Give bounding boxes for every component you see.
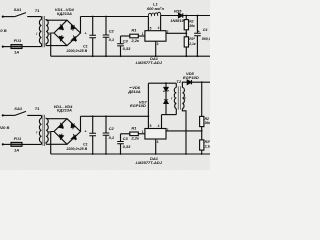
bridge rectifier VD1-VD4 diamond bbox=[54, 20, 81, 45]
svg-text:FU1: FU1 bbox=[14, 136, 22, 141]
T1 core bbox=[43, 16, 45, 47]
svg-text:+: + bbox=[84, 32, 86, 36]
wire bridge minus to ground rail bbox=[51, 132, 54, 155]
svg-text:36к: 36к bbox=[189, 24, 195, 28]
svg-text:~220 В: ~220 В bbox=[0, 125, 10, 130]
svg-text:T1: T1 bbox=[35, 106, 40, 111]
svg-text:I: I bbox=[171, 97, 172, 101]
svg-text:500,0: 500,0 bbox=[202, 37, 210, 41]
capacitor C2 bbox=[105, 116, 107, 133]
svg-text:2,2к: 2,2к bbox=[130, 38, 140, 43]
svg-text:FU1: FU1 bbox=[14, 38, 22, 43]
diode VD3 (bottom-left arm) bbox=[59, 134, 63, 140]
svg-text:T2: T2 bbox=[176, 79, 181, 84]
wire bbox=[3, 46, 11, 48]
diode VD1 (top-left arm) bbox=[58, 123, 63, 129]
wire bridge plus riser bbox=[80, 17, 82, 34]
wire secondary top bbox=[182, 82, 187, 87]
inductor L1 legs bbox=[148, 16, 160, 31]
svg-text:3: 3 bbox=[157, 42, 159, 46]
wire pin2 feedback bbox=[166, 130, 202, 132]
svg-text:LM2577T-ADJ: LM2577T-ADJ bbox=[136, 160, 163, 165]
svg-text:1A: 1A bbox=[14, 50, 19, 55]
node: mains input terminal top bbox=[2, 16, 4, 18]
svg-text:0,1: 0,1 bbox=[109, 37, 115, 42]
diode VD7 bbox=[164, 99, 168, 101]
resistor R3* bbox=[200, 140, 204, 150]
svg-text:R1: R1 bbox=[131, 28, 137, 33]
switch SA1 bbox=[15, 13, 42, 17]
T1 secondary winding II bbox=[46, 118, 48, 144]
svg-text:I: I bbox=[36, 32, 37, 36]
resistor R2 bbox=[201, 81, 203, 83]
capacitor C4 bbox=[197, 15, 199, 17]
wire pin5 riser to clamp rail bbox=[147, 83, 149, 128]
wire pin2 feedback bbox=[166, 32, 186, 34]
svg-text:1N5819: 1N5819 bbox=[170, 19, 183, 23]
svg-text:EGP10D: EGP10D bbox=[183, 75, 199, 80]
svg-text:2,1к: 2,1к bbox=[204, 144, 210, 148]
svg-text:SA1: SA1 bbox=[14, 7, 23, 12]
T2 secondary winding II bbox=[182, 88, 184, 109]
zener VD6 bbox=[164, 87, 168, 91]
resistor R3* bbox=[184, 37, 188, 47]
svg-text:II: II bbox=[184, 97, 186, 101]
svg-text:EGP10D: EGP10D bbox=[130, 103, 146, 108]
svg-text:600 мкГн: 600 мкГн bbox=[147, 7, 165, 11]
capacitor C2 bbox=[105, 17, 107, 36]
wire bbox=[3, 16, 15, 18]
T1 primary winding I bbox=[41, 115, 43, 118]
capacitor C3 bbox=[120, 36, 122, 44]
wire secondary bottom to ground bbox=[182, 109, 186, 154]
op IC DA1 LM2577 box bbox=[145, 129, 166, 140]
wire bbox=[22, 143, 42, 145]
label VD6 leader dash bbox=[130, 87, 132, 89]
T1 core bbox=[43, 115, 45, 146]
wire bbox=[3, 143, 11, 145]
wire clamp bottom to pin4 and primary bbox=[162, 114, 177, 116]
wire secondary bottom to bridge bbox=[46, 45, 67, 47]
svg-text:~220 В: ~220 В bbox=[0, 28, 7, 33]
top rail bbox=[81, 16, 149, 18]
capacitor C3 bbox=[120, 134, 122, 142]
wire secondary bottom to bridge bbox=[46, 143, 67, 145]
diode VD1 (top-left arm) bbox=[58, 24, 63, 30]
ground rail bbox=[51, 153, 210, 155]
wire secondary top to bridge bbox=[46, 118, 67, 120]
svg-text:5: 5 bbox=[150, 124, 152, 128]
svg-text:C2: C2 bbox=[109, 126, 115, 131]
resistor R1 bbox=[121, 133, 130, 135]
svg-text:+: + bbox=[84, 130, 86, 134]
diode VD3 (bottom-left arm) bbox=[59, 35, 63, 41]
resistor R1 bbox=[121, 35, 130, 37]
wire bbox=[165, 103, 167, 114]
svg-text:4: 4 bbox=[158, 26, 160, 30]
wire pin3 to ground bbox=[155, 41, 157, 56]
svg-text:II: II bbox=[48, 130, 50, 134]
svg-text:Д814А: Д814А bbox=[127, 89, 141, 94]
svg-text:0,33: 0,33 bbox=[123, 144, 132, 149]
svg-text:I: I bbox=[36, 130, 37, 134]
wire bridge plus riser bbox=[80, 116, 82, 131]
top rail bbox=[81, 115, 149, 117]
svg-text:C3: C3 bbox=[123, 38, 129, 43]
svg-text:SA1: SA1 bbox=[14, 106, 23, 111]
svg-text:2,2к: 2,2к bbox=[130, 136, 140, 141]
wire secondary top to bridge bbox=[46, 19, 67, 21]
svg-text:36к: 36к bbox=[205, 121, 210, 125]
svg-text:КД213А: КД213А bbox=[57, 11, 72, 16]
node: mains input terminal top bbox=[2, 114, 4, 116]
wire bbox=[165, 91, 167, 100]
svg-text:0,1: 0,1 bbox=[109, 135, 115, 140]
svg-text:5: 5 bbox=[150, 26, 152, 30]
resistor R2 bbox=[185, 15, 187, 17]
diode VD5 bbox=[179, 13, 183, 17]
diode VD2 (top-right arm) bbox=[71, 123, 76, 129]
op IC DA1 LM2577 box bbox=[145, 31, 166, 42]
capacitor C1 bbox=[92, 17, 94, 36]
svg-text:VD5: VD5 bbox=[174, 8, 183, 13]
diode VD2 (top-right arm) bbox=[71, 25, 76, 31]
ground rail bbox=[51, 55, 210, 57]
fuse FU1 bbox=[11, 142, 22, 146]
svg-text:1: 1 bbox=[142, 32, 144, 36]
fuse FU1 bbox=[11, 45, 22, 49]
svg-text:+: + bbox=[198, 29, 200, 33]
svg-text:T1: T1 bbox=[35, 8, 40, 13]
svg-text:2,1к: 2,1к bbox=[188, 42, 196, 46]
wire bbox=[3, 114, 15, 116]
T1 primary winding I bbox=[41, 17, 43, 20]
diode VD5 bbox=[187, 80, 191, 84]
T2 primary winding I bbox=[175, 83, 177, 87]
svg-text:4: 4 bbox=[158, 124, 160, 128]
wire rail after L1 bbox=[161, 15, 179, 17]
svg-text:C4: C4 bbox=[203, 28, 208, 32]
wire clamp chain bbox=[165, 83, 167, 87]
svg-text:КД213А: КД213А bbox=[57, 107, 72, 112]
svg-text:2200,0×25 В: 2200,0×25 В bbox=[66, 49, 88, 53]
svg-text:R1: R1 bbox=[131, 125, 137, 130]
bridge rectifier VD1-VD4 diamond bbox=[54, 119, 81, 145]
capacitor C1 bbox=[92, 116, 94, 133]
node: mains input terminal bottom bbox=[2, 143, 4, 145]
clamp rail bbox=[148, 82, 176, 84]
svg-text:R3*: R3* bbox=[189, 37, 195, 41]
wire pin4 riser bbox=[161, 115, 163, 129]
node bbox=[92, 16, 94, 18]
svg-text:LM2577T-ADJ: LM2577T-ADJ bbox=[136, 60, 163, 65]
svg-text:3: 3 bbox=[157, 140, 159, 144]
svg-text:C2: C2 bbox=[109, 28, 115, 33]
inductor L1 winding bbox=[148, 12, 160, 16]
wire bridge minus to ground rail bbox=[51, 33, 54, 56]
T2 core bbox=[178, 86, 180, 109]
diode VD4 (bottom-right arm) bbox=[71, 35, 76, 41]
svg-text:1: 1 bbox=[142, 130, 144, 134]
T1 secondary winding II bbox=[46, 20, 48, 46]
svg-text:C3: C3 bbox=[123, 136, 129, 141]
wire bbox=[22, 46, 42, 48]
svg-text:L1: L1 bbox=[153, 2, 158, 7]
diode VD4 (bottom-right arm) bbox=[71, 134, 76, 140]
svg-text:1A: 1A bbox=[14, 148, 19, 153]
svg-text:2200,0×25 В: 2200,0×25 В bbox=[66, 147, 88, 151]
node: mains input terminal bottom bbox=[2, 46, 4, 48]
svg-text:0,33: 0,33 bbox=[123, 46, 132, 51]
wire pin3 to ground bbox=[155, 139, 157, 154]
svg-text:II: II bbox=[48, 32, 50, 36]
switch SA1 bbox=[15, 111, 42, 115]
